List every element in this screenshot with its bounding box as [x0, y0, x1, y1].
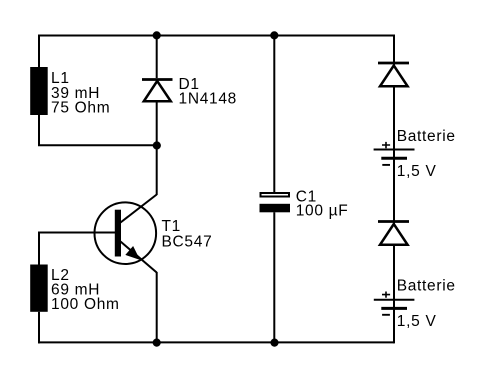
wire mid-left horizontal — [38, 144, 157, 146]
wire emitter vertical — [156, 272, 158, 342]
svg-text:100 µF: 100 µF — [296, 203, 349, 220]
svg-text:1N4148: 1N4148 — [179, 91, 238, 108]
wire L1 bottom stub — [38, 115, 40, 145]
wire C1 bottom stub — [273, 212, 275, 342]
wire bottom rail — [38, 341, 394, 343]
svg-text:1,5 V: 1,5 V — [397, 163, 437, 180]
label L2 values — [51, 267, 120, 313]
diode D3 (right bottom) — [378, 222, 409, 245]
wire right rail top — [393, 35, 395, 66]
wire top rail — [39, 35, 394, 37]
junction dot top C1 column — [270, 31, 278, 39]
capacitor C1 — [260, 193, 291, 212]
inductor L1 — [30, 67, 48, 115]
wire D1 anode stub (top rail to D1) — [156, 36, 158, 79]
battery B2 — [374, 292, 415, 315]
wire collector vertical — [156, 145, 158, 195]
label Batterie 1 — [397, 128, 456, 180]
wire C1 top stub — [273, 36, 275, 193]
svg-text:Batterie: Batterie — [397, 278, 456, 295]
svg-text:BC547: BC547 — [162, 233, 213, 250]
junction dot mid (D1 cathode node) — [153, 141, 161, 149]
diode D1 — [142, 80, 173, 102]
transistor T1 — [95, 202, 157, 272]
wire collector diagonal — [121, 195, 157, 223]
junction dot bottom C1 node — [270, 339, 278, 347]
svg-text:100 Ohm: 100 Ohm — [51, 296, 120, 313]
label L1 values — [51, 70, 110, 116]
junction dot top-left column — [153, 31, 161, 39]
wire D2 to battery B1 — [393, 87, 395, 225]
wire D1 cathode stub (D1 to mid junction) — [156, 103, 158, 146]
wire left rail upper (to L1) — [38, 35, 40, 68]
wire D3 to battery B2 — [393, 245, 395, 343]
svg-text:1,5 V: 1,5 V — [397, 313, 437, 330]
wire base horizontal — [38, 232, 115, 234]
svg-text:Batterie: Batterie — [397, 128, 456, 145]
label Batterie 2 — [397, 278, 456, 331]
svg-text:75 Ohm: 75 Ohm — [51, 100, 110, 117]
label C1 100uF — [296, 188, 349, 219]
junction dot bottom emitter node — [153, 339, 161, 347]
battery B1 — [374, 142, 415, 165]
wire L2 bottom stub — [38, 312, 40, 344]
label D1 1N4148 — [179, 76, 238, 108]
wire left rail lower (base to L2) — [38, 232, 40, 265]
diode D2 (right top) — [378, 63, 409, 86]
inductor L2 — [30, 265, 48, 312]
label T1 BC547 — [162, 218, 213, 250]
